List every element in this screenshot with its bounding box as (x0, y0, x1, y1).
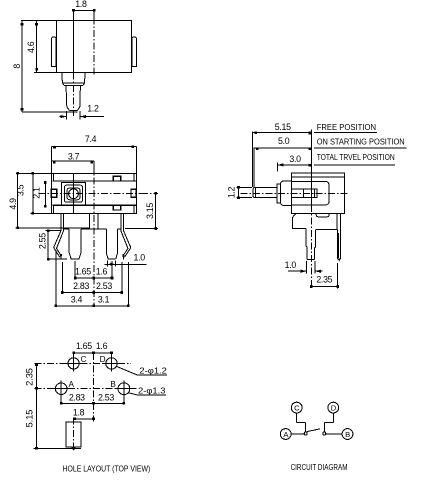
svg-text:1.6: 1.6 (96, 341, 108, 351)
svg-text:1.8: 1.8 (73, 408, 85, 418)
svg-text:3.1: 3.1 (98, 294, 110, 304)
svg-text:4.9: 4.9 (8, 198, 18, 210)
svg-text:D: D (331, 403, 337, 412)
svg-text:3.5: 3.5 (16, 184, 26, 196)
svg-text:HOLE LAYOUT (TOP VIEW): HOLE LAYOUT (TOP VIEW) (63, 464, 151, 474)
svg-text:2.83: 2.83 (69, 392, 85, 402)
svg-text:C: C (81, 355, 87, 364)
svg-text:ON STARTING POSITION: ON STARTING POSITION (317, 137, 405, 147)
svg-text:3.0: 3.0 (289, 154, 301, 164)
svg-text:5.0: 5.0 (278, 136, 290, 146)
svg-text:7.4: 7.4 (85, 134, 97, 144)
svg-text:TOTAL TRVEL POSITION: TOTAL TRVEL POSITION (317, 152, 395, 162)
svg-text:5.15: 5.15 (25, 410, 35, 428)
svg-text:1.8: 1.8 (75, 0, 87, 9)
svg-text:FREE POSITION: FREE POSITION (317, 122, 376, 132)
svg-text:B: B (345, 430, 350, 439)
svg-text:4.6: 4.6 (26, 41, 36, 53)
svg-text:1.6: 1.6 (96, 267, 108, 277)
svg-text:2-φ1.2: 2-φ1.2 (139, 366, 167, 376)
svg-text:1.65: 1.65 (76, 341, 92, 351)
svg-text:1.0: 1.0 (285, 260, 297, 270)
svg-text:2.53: 2.53 (96, 281, 112, 291)
svg-text:D: D (100, 355, 106, 364)
svg-text:1.2: 1.2 (87, 104, 99, 114)
svg-text:A: A (69, 380, 75, 389)
svg-text:3.4: 3.4 (71, 294, 83, 304)
svg-text:5.15: 5.15 (275, 122, 291, 132)
svg-text:2.55: 2.55 (38, 233, 48, 249)
svg-text:2.53: 2.53 (98, 392, 114, 402)
svg-text:3.15: 3.15 (145, 203, 155, 219)
svg-text:2.35: 2.35 (316, 274, 332, 284)
svg-text:2-φ1.3: 2-φ1.3 (138, 386, 166, 396)
svg-text:8: 8 (12, 64, 22, 69)
svg-text:1.65: 1.65 (75, 267, 91, 277)
svg-text:2.35: 2.35 (25, 368, 35, 386)
svg-text:3.7: 3.7 (68, 152, 80, 162)
svg-text:C: C (294, 403, 300, 412)
svg-text:2.83: 2.83 (73, 281, 89, 291)
svg-text:2.1: 2.1 (32, 187, 42, 199)
svg-text:CIRCUIT DIAGRAM: CIRCUIT DIAGRAM (291, 462, 348, 472)
svg-text:B: B (110, 380, 116, 389)
svg-text:1.0: 1.0 (134, 253, 146, 263)
svg-text:1.2: 1.2 (227, 186, 237, 198)
